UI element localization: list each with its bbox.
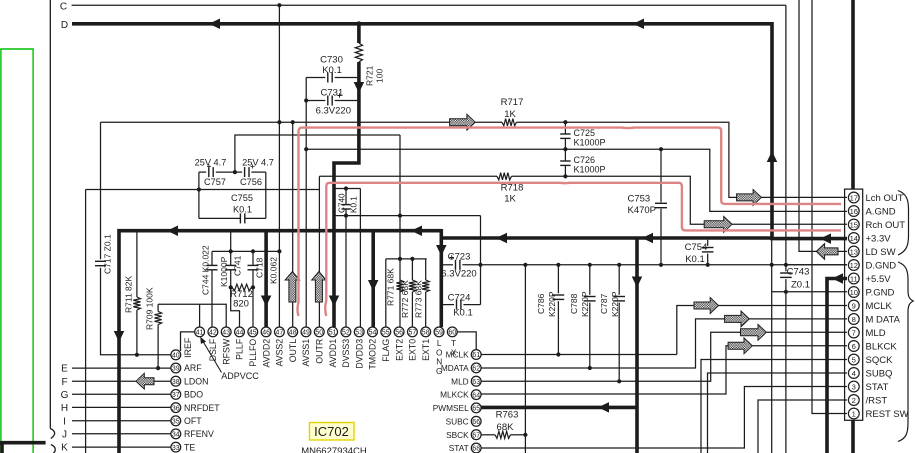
svg-text:9: 9 [852, 301, 856, 310]
svg-text:R773 68K: R773 68K [414, 280, 424, 318]
wire box left side [198, 172, 200, 218]
svg-text:PLLF: PLLF [235, 338, 245, 360]
svg-text:C724: C724 [448, 293, 471, 304]
svg-text:14: 14 [850, 234, 858, 243]
wire C755 bottom row [199, 217, 240, 219]
wire MDATA row IC62 to pin 8 [481, 319, 725, 368]
IC702 pin 58 EXT1 [421, 327, 431, 337]
flow arrow on D bus right [633, 19, 644, 30]
svg-text:I: I [63, 416, 66, 427]
wire Lch row after R717 [517, 122, 848, 197]
wire FLAG header row [386, 258, 427, 260]
wire MLD row IC63 to pin 7 [481, 332, 741, 381]
wire I to IC pin 35 [72, 420, 171, 422]
wire +5.5V pin 11 (thick) [827, 279, 847, 453]
wire to connector top (thick) [851, 0, 855, 189]
wire pin 41 vertical [199, 304, 201, 327]
IC702 pin 41 ADPVCC [195, 327, 205, 337]
junction D.GND / C753 [659, 263, 663, 267]
svg-text:6.3V220: 6.3V220 [316, 106, 351, 117]
svg-text:AVSS2: AVSS2 [275, 339, 285, 367]
svg-text:K220P: K220P [610, 291, 620, 317]
connector CN shell [845, 189, 863, 420]
wire D.GND bottom feed [771, 240, 773, 453]
svg-text:C787: C787 [599, 293, 609, 314]
wire pin 52 riser [345, 216, 347, 327]
svg-text:5: 5 [852, 355, 856, 364]
green highlight box (adjacent section) [1, 49, 33, 453]
junction R709 / ARF [156, 366, 160, 370]
node junction on C wire at AVSS2 column [277, 3, 281, 7]
IC702 pin 45 PLLFO [248, 327, 258, 337]
IC702 pin 61 MCLK [471, 350, 481, 360]
svg-text:LDON: LDON [184, 376, 208, 386]
svg-text:AVSS1: AVSS1 [301, 339, 311, 367]
svg-text:C725: C725 [574, 128, 596, 138]
svg-text:R711 82K: R711 82K [124, 275, 134, 313]
wire ground reference spine [85, 190, 87, 453]
svg-text:K220P: K220P [547, 291, 557, 317]
junction C731 / AVSS column [304, 98, 308, 102]
connector pin 17 Lch OUT [848, 192, 859, 203]
svg-text:41: 41 [196, 330, 204, 337]
wire C723 link [442, 264, 453, 266]
IC702 pin 67 SBCK [471, 430, 481, 440]
svg-text:C717 Z0.1: C717 Z0.1 [103, 234, 113, 274]
resistor R773 68K [425, 259, 427, 280]
svg-text:820: 820 [233, 299, 249, 310]
IC702 pin 42 DSLF [208, 327, 218, 337]
svg-text:G: G [61, 390, 69, 401]
svg-text:7: 7 [852, 328, 856, 337]
IC702 pin 44 PLLF [235, 327, 245, 337]
IC702 pin 54 TMOD2 [368, 327, 378, 337]
IC702 pin 46 AVDD2 [261, 327, 271, 337]
capacitor C730 K0.1 [327, 73, 329, 83]
svg-text:K0.1: K0.1 [233, 204, 252, 214]
wire P.GND row pin 10 [772, 291, 847, 293]
svg-text:K0.1: K0.1 [350, 196, 359, 213]
svg-text:62: 62 [472, 366, 480, 373]
svg-text:ARF: ARF [184, 363, 202, 373]
svg-text:59: 59 [435, 330, 443, 337]
junction C741 / R712 [229, 285, 233, 289]
signal arrow MCLK [694, 298, 719, 314]
junction D.GND / C754 [706, 263, 710, 267]
IC702 pin 50 OUTR [314, 327, 324, 337]
wire DV header row upper [334, 188, 360, 190]
junction header / R771 [398, 257, 402, 261]
svg-text:J: J [62, 429, 67, 440]
wire Lch signal row (OUTL to R717 to pin 17) [101, 121, 450, 123]
connector pin 11 +5.5V [848, 273, 859, 284]
junction AVSS column / A.GND row [304, 147, 308, 151]
resistor R763 68K [481, 434, 495, 436]
flow arrow up on +3.3V drop [767, 151, 778, 162]
wire D.GND row to pin 12 [786, 264, 847, 266]
wire MLKCK row IC64 to pin 6 [481, 346, 728, 394]
svg-text:BDO: BDO [184, 390, 203, 400]
connector pin 1 REST SW [848, 408, 859, 419]
svg-text:A.GND: A.GND [866, 206, 896, 217]
svg-text:35: 35 [172, 418, 180, 425]
junction D.GND / C743 [784, 263, 788, 267]
resistor R718 1K [497, 173, 512, 180]
connector pin 15 Rch OUT [848, 219, 859, 230]
connector pin 13 LD SW [848, 246, 859, 257]
signal arrow BLKCK [728, 338, 752, 354]
wire Rch signal row (OUTR to R718 to pin 15) [319, 175, 497, 177]
svg-text:Lch OUT: Lch OUT [866, 193, 904, 204]
svg-text:39: 39 [172, 366, 180, 373]
capacitor C743 Z0.1 [785, 265, 787, 272]
svg-text:G: G [436, 366, 442, 376]
IC702 pin 40 IREF [171, 350, 181, 360]
svg-text:51: 51 [329, 330, 337, 337]
svg-text:45: 45 [249, 330, 257, 337]
svg-text:R717: R717 [501, 97, 524, 108]
wire C730 link [306, 77, 325, 79]
flow arrow on bus run 1 right [411, 225, 422, 236]
red trace Lch output path [298, 128, 842, 316]
flow arrow into pin 46 AVDD2 [261, 296, 272, 307]
connector pin 12 D.GND [848, 260, 859, 271]
wire AVSS1 column pin 49 [305, 78, 307, 328]
svg-text:47: 47 [276, 330, 284, 337]
svg-text:D.GND: D.GND [866, 260, 897, 271]
svg-text:11: 11 [850, 274, 858, 283]
wire SQCK pin 5 [701, 360, 847, 453]
wire net D +3.3V (thick bus) [72, 22, 772, 26]
svg-text:+5.5V: +5.5V [866, 274, 892, 285]
svg-text:OUTL: OUTL [288, 339, 298, 363]
IC702 pin 59 ADPVCC [434, 327, 444, 337]
svg-text:1K: 1K [504, 109, 516, 120]
svg-text:55: 55 [382, 330, 390, 337]
resistor R711 82K [136, 232, 138, 297]
connector pin 8 M DATA [848, 314, 859, 325]
svg-text:K1000P: K1000P [574, 138, 606, 148]
IC702 pin 57 EXT0 [408, 327, 418, 337]
svg-text:RFSW: RFSW [221, 338, 231, 365]
IC702 reference designator (highlighted) [310, 423, 355, 441]
wire pin 55 riser [385, 259, 387, 327]
svg-text:25V 4.7: 25V 4.7 [195, 158, 227, 168]
svg-text:MCLK: MCLK [446, 350, 470, 360]
svg-text:P.GND: P.GND [866, 287, 895, 298]
svg-text:Rch OUT: Rch OUT [866, 220, 906, 231]
signal arrow from pin 13 LD SW [816, 244, 838, 260]
svg-text:C741: C741 [233, 255, 243, 276]
flow arrow on bus run 2 right [642, 233, 653, 244]
svg-text:K0.062: K0.062 [269, 257, 279, 284]
wire +3.3V right drop (thick) [772, 22, 847, 239]
svg-text:48: 48 [289, 330, 297, 337]
svg-text:M DATA: M DATA [866, 314, 901, 325]
wire H to IC pin 36 [72, 406, 171, 408]
svg-text:13: 13 [850, 247, 858, 256]
capacitor C740 K0.1 [345, 189, 347, 205]
wire net C (D.GND feed) [72, 4, 786, 6]
svg-text:2: 2 [852, 396, 856, 405]
svg-text:+3.3V: +3.3V [866, 233, 892, 244]
resistor R712 820 [232, 284, 252, 290]
junction C786 / MCLK row [556, 352, 560, 356]
wire E to IC pin 39 [72, 367, 171, 369]
flow arrow into pin 54 [368, 280, 379, 291]
wire F to IC pin 38 [72, 380, 171, 382]
svg-text:IREF: IREF [183, 337, 193, 358]
svg-text:C740: C740 [338, 193, 347, 213]
signal arrow from pin 38 LDON [136, 373, 154, 389]
svg-text:K1000P: K1000P [219, 256, 229, 287]
IC702 pin 43 RFSW [221, 327, 231, 337]
wire STAT row IC68 to pin 3 [481, 387, 847, 449]
svg-text:Z0.1: Z0.1 [791, 280, 810, 291]
signal arrow up OUTR [312, 272, 326, 303]
IC702 pin 64 MLKCK [471, 390, 481, 400]
svg-text:OUTR: OUTR [315, 339, 325, 364]
svg-text:C756: C756 [240, 177, 262, 187]
red trace Rch output path [325, 183, 841, 316]
wire K to IC pin 33 [72, 446, 171, 448]
junction C718 / R712 / pin45 [251, 285, 255, 289]
svg-text:C753: C753 [628, 193, 651, 204]
svg-text:AVDD1: AVDD1 [328, 339, 338, 368]
svg-text:R718: R718 [501, 183, 524, 194]
svg-text:16: 16 [850, 207, 858, 216]
junction D.GND / C787 [617, 263, 621, 267]
svg-text:67: 67 [472, 432, 480, 439]
IC702 pin 38 LDON [171, 376, 181, 386]
wire MCLK row IC61 to pin 9 [481, 354, 677, 356]
junction Lch row / OUTL column [291, 120, 295, 124]
svg-text:66: 66 [472, 419, 480, 426]
IC702 pin 62 MDATA [471, 363, 481, 373]
wire pin 44 jog [231, 287, 240, 327]
svg-text:42: 42 [209, 330, 217, 337]
svg-text:C743: C743 [787, 267, 810, 278]
flow arrow on digital supply drop [632, 277, 643, 288]
IC702 pin 36 NRFDET [171, 403, 181, 413]
svg-text:SQCK: SQCK [866, 355, 894, 366]
connector pin 3 STAT [848, 381, 859, 392]
IC702 pin 52 DVSS3 [341, 327, 351, 337]
IC702 pin 56 EXT2 [394, 327, 404, 337]
capacitor C744 K0.022 [211, 251, 213, 265]
svg-text:C726: C726 [574, 155, 596, 165]
signal arrow MLD [741, 324, 767, 340]
svg-text:D: D [61, 20, 68, 31]
resistor R721 branch wire (thick) [357, 24, 361, 43]
IC702 outline corner top-left [181, 332, 195, 351]
wire TMOD2 drop to pin 54 (thick) [371, 231, 375, 327]
svg-text:68K: 68K [497, 422, 515, 433]
flow arrow down on left drop [114, 331, 125, 342]
wire PLL cap header row [212, 250, 279, 252]
svg-text:25V 4.7: 25V 4.7 [242, 158, 274, 168]
capacitor C725 K1000P [564, 122, 566, 134]
svg-text:36: 36 [172, 405, 180, 412]
svg-text:6.3V220: 6.3V220 [441, 269, 476, 280]
wire LD SW feed from top [799, 0, 816, 251]
svg-text:STAT: STAT [866, 382, 889, 393]
svg-text:K220P: K220P [580, 291, 590, 317]
svg-text:34: 34 [172, 432, 180, 439]
junction Lch row / AVSS2 column [277, 120, 281, 124]
connector pin 14 +3.3V [848, 233, 859, 244]
connector pin 5 SQCK [848, 354, 859, 365]
IC702 pin 66 SUBC [471, 416, 481, 426]
svg-text:REST SW: REST SW [866, 409, 909, 420]
svg-text:TMOD2: TMOD2 [368, 339, 378, 370]
wire DVDD drop to pin 59 (thick) [439, 229, 443, 327]
wire P.GND bottom feed [785, 292, 787, 453]
wire SBCK pulldown column [524, 265, 526, 453]
wire stub from adjacent section (thick) [0, 441, 46, 445]
junction D bus / R721 branch [356, 21, 361, 26]
svg-text:64: 64 [472, 392, 480, 399]
wire SUBQ pin 4 [708, 373, 848, 453]
svg-text:C754: C754 [685, 242, 708, 253]
flow arrow on bus run 1 left [167, 225, 178, 236]
svg-text:15: 15 [850, 220, 858, 229]
svg-text:F: F [61, 377, 67, 388]
svg-text:DVDD3: DVDD3 [354, 339, 364, 369]
wire A.GND row (AVSS1 to pin 16) [306, 149, 847, 211]
IC702 pin 60 ADPVCC [447, 327, 457, 337]
junction header / C718 [251, 249, 255, 253]
IC702 pin 65 PWMSEL [471, 403, 481, 413]
svg-text:60: 60 [448, 330, 456, 337]
flow arrow into pin 14 [820, 233, 831, 244]
svg-text:37: 37 [172, 392, 180, 399]
svg-text:R772 68K: R772 68K [400, 280, 410, 318]
svg-text:AVDD2: AVDD2 [261, 339, 271, 368]
signal arrow up OUTL [285, 272, 299, 303]
svg-text:8: 8 [852, 315, 856, 324]
svg-text:SUBC: SUBC [446, 416, 469, 426]
svg-text:40: 40 [172, 353, 180, 360]
flow arrow on bus run 2 left [496, 233, 507, 244]
bus wire +3.3V horizontal run 1 (thick) [119, 231, 441, 453]
wire DVDD3 column [359, 189, 361, 328]
svg-text:46: 46 [262, 330, 270, 337]
connector pin 10 P.GND [848, 287, 859, 298]
section border bulge arcs [50, 429, 55, 453]
wire below connector (thick) [851, 420, 855, 453]
flow arrow on D bus left [209, 19, 220, 30]
svg-text:C: C [60, 1, 67, 12]
svg-text:C730: C730 [320, 55, 343, 66]
svg-text:MLD: MLD [866, 328, 886, 339]
svg-text:SBCK: SBCK [446, 430, 469, 440]
svg-text:53: 53 [355, 330, 363, 337]
svg-text:/RST: /RST [866, 395, 888, 406]
svg-text:SUBQ: SUBQ [866, 368, 893, 379]
svg-text:49: 49 [302, 330, 310, 337]
capacitor C755 K0.1 [239, 213, 241, 223]
wire pin 60 to pin 61 link [457, 332, 476, 350]
wire IREF feed vertical with C717 [100, 122, 102, 259]
IC702 pin 63 MLD [471, 376, 481, 386]
svg-text:H: H [61, 403, 68, 414]
svg-text:EXT1: EXT1 [421, 339, 431, 361]
signal arrow to pin 15 Rch OUT [704, 216, 732, 232]
svg-text:LD SW: LD SW [866, 247, 896, 258]
svg-text:10: 10 [850, 288, 858, 297]
capacitor C741 K1000P [230, 251, 232, 265]
svg-text:54: 54 [369, 330, 377, 337]
svg-text:R709 100K: R709 100K [145, 287, 155, 330]
junction R711 / IREF [135, 353, 139, 357]
capacitor C757 [208, 167, 210, 177]
resistor R709 100K [157, 304, 159, 311]
IC702 pin 39 ARF [171, 363, 181, 373]
junction C743 / P.GND row [784, 290, 788, 294]
wire DV row drop to D.GND [480, 216, 482, 305]
bus tie for PLL caps [230, 232, 232, 251]
flow arrow on PWMSEL wire [598, 402, 609, 413]
wire PWMSEL pin 65 (thick) [481, 406, 637, 410]
svg-text:44: 44 [236, 330, 244, 337]
junction Lch row / C725 [563, 120, 567, 124]
flow arrow into pin 51 AVDD1 [329, 296, 340, 307]
wire R721 to AVDD jog (thick) [334, 62, 359, 327]
ADPVCC leader arrow [203, 341, 222, 373]
junction Rch row / C726 [563, 174, 567, 178]
svg-text:C718: C718 [255, 257, 265, 278]
svg-text:4: 4 [852, 369, 856, 378]
svg-text:RFENV: RFENV [184, 429, 214, 439]
capacitor C724 K0.1 [456, 300, 458, 310]
svg-text:MCLK: MCLK [866, 301, 893, 312]
capacitor C786 K220P [557, 265, 559, 294]
svg-text:MN6627934CH: MN6627934CH [301, 446, 367, 453]
wire C724 link [442, 304, 454, 306]
svg-text:C757: C757 [204, 177, 226, 187]
svg-text:C788: C788 [569, 293, 579, 314]
signal source arrow on Lch row [450, 114, 476, 130]
svg-text:6: 6 [852, 342, 856, 351]
wire /RST pin 2 [758, 400, 847, 453]
svg-text:X: X [451, 347, 457, 357]
svg-text:61: 61 [472, 352, 480, 359]
connector pin 2 /RST [848, 395, 859, 406]
svg-text:1: 1 [852, 409, 856, 418]
junction D.GND / C788 [588, 263, 592, 267]
wire G to IC pin 37 [72, 393, 171, 395]
junction C788 / MDATA row [588, 366, 592, 370]
resistor R772 68K [411, 259, 413, 280]
wire REST SW feed from top [812, 0, 847, 414]
svg-text:TE: TE [184, 442, 195, 452]
wire ground row y190 [86, 189, 320, 191]
connector pin 6 BLKCK [848, 341, 859, 352]
wire AVDD2 drop (thick) [264, 231, 268, 327]
connector pin 7 MLD [848, 327, 859, 338]
junction A.GND / C725-C726 [563, 147, 567, 151]
IC702 pin 68 STAT [471, 443, 481, 453]
svg-text:OFT: OFT [184, 416, 202, 426]
svg-text:PWMSEL: PWMSEL [433, 403, 469, 413]
svg-text:K470P: K470P [628, 205, 657, 216]
junction A.GND / C753 [659, 147, 663, 151]
capacitor C753 K470P [660, 149, 662, 202]
svg-text:58: 58 [422, 330, 430, 337]
svg-text:T: T [451, 338, 456, 348]
svg-text:NRFDET: NRFDET [184, 403, 220, 413]
